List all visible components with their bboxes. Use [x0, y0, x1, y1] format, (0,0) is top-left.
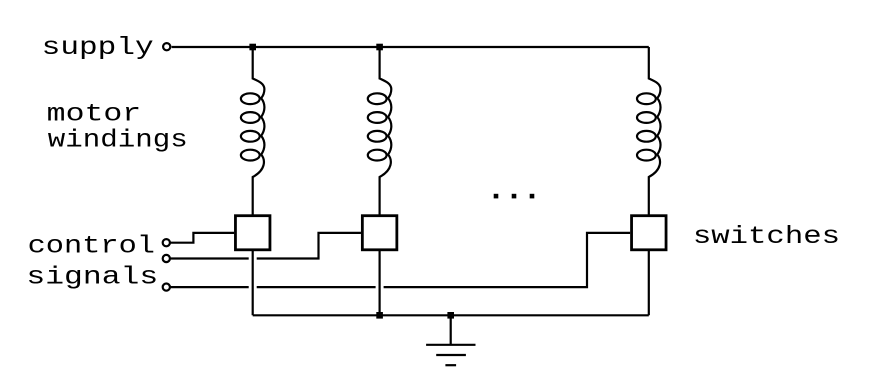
- svg-text:control: control: [28, 232, 155, 261]
- svg-text:supply: supply: [42, 33, 154, 62]
- svg-text:windings: windings: [48, 126, 188, 155]
- svg-text:switches: switches: [693, 222, 840, 251]
- svg-text:motor: motor: [47, 100, 142, 129]
- svg-text:signals: signals: [26, 262, 158, 291]
